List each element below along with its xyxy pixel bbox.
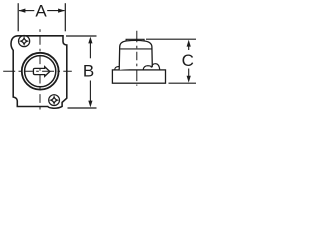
dimension B arrowhead down	[88, 101, 92, 108]
phillips screw cross top-left	[21, 38, 27, 44]
vertical centerline front view	[39, 29, 41, 111]
dimension C line lower segment	[188, 69, 190, 78]
dimension A line left segment	[19, 10, 34, 12]
dimension B arrowhead up	[88, 37, 92, 44]
lock bezel outer circle	[22, 53, 59, 90]
screw boss top-left	[19, 36, 30, 47]
dimension B extension line bottom	[68, 107, 97, 109]
side view cap top boss	[126, 39, 144, 41]
side view left bump	[115, 67, 120, 70]
horizontal centerline front view	[3, 70, 73, 72]
side view flange	[112, 70, 165, 83]
side view cam wing bumps	[143, 64, 160, 70]
dimension C line upper segment	[188, 45, 190, 50]
front view body outline	[11, 36, 67, 108]
dimension A arrowhead left	[19, 9, 26, 13]
dimension C arrowhead down	[187, 76, 191, 83]
screw boss bottom-right	[49, 95, 60, 106]
phillips screw cross bottom-right	[51, 97, 57, 103]
svg-text:B: B	[83, 61, 94, 80]
dimension C extension line top	[146, 38, 196, 40]
side view vertical centerline	[136, 31, 138, 86]
dimension B line lower segment	[89, 81, 91, 103]
dimension A extension line left	[17, 3, 19, 31]
dimension B extension line top	[66, 35, 97, 37]
dimension B line upper segment	[89, 42, 91, 58]
svg-text:C: C	[182, 51, 194, 70]
dimension C extension line bottom	[169, 82, 197, 84]
dimension A arrowhead right	[58, 9, 65, 13]
dimension A line right segment	[47, 10, 64, 12]
side view cap seam line	[120, 48, 152, 50]
dimension A extension line right	[64, 3, 66, 31]
dimension C arrowhead up	[187, 40, 191, 47]
lock bezel inner circle	[25, 56, 56, 87]
side view cap dome	[119, 40, 152, 70]
svg-text:A: A	[35, 2, 47, 21]
key-slot arrow in lock face	[33, 67, 49, 77]
